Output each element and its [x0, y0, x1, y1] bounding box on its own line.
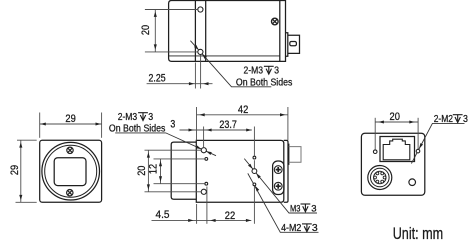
side view hole upper-left	[201, 148, 206, 153]
top view screw hole lower	[198, 49, 203, 54]
svg-text:Unit: mm: Unit: mm	[393, 225, 444, 243]
side view right hole middle	[252, 169, 257, 174]
svg-text:4.5: 4.5	[156, 209, 170, 221]
svg-text:29: 29	[65, 113, 75, 125]
svg-text:2-M2: 2-M2	[434, 114, 454, 125]
dimension 4.5 and 22 (side view)	[152, 186, 255, 224]
svg-text:3: 3	[312, 223, 318, 234]
dimension 20 (side view)	[145, 150, 202, 192]
side view body	[196, 140, 283, 202]
side view right small hole lower	[253, 183, 256, 186]
side view small hole lower	[205, 182, 208, 185]
front view square body	[40, 140, 102, 202]
side view screw boss	[273, 161, 284, 195]
svg-text:29: 29	[9, 165, 21, 175]
front view top screw	[67, 147, 73, 153]
back view LED hole	[409, 179, 416, 186]
front view lens mount inner circle	[45, 145, 97, 197]
dimension 12 (side view)	[154, 159, 205, 184]
side view connector bar	[287, 144, 290, 164]
side view right small hole upper	[253, 156, 256, 159]
front view sensor window	[54, 158, 86, 186]
leader to back view right screw hole	[418, 143, 423, 149]
svg-text:42: 42	[238, 104, 248, 116]
leader to side view middle hole	[248, 164, 254, 170]
dimension 20 (top view)	[145, 10, 198, 52]
svg-text:20: 20	[140, 25, 152, 35]
top view second panel line	[205, 1, 207, 62]
dimension 42 (side view)	[197, 107, 288, 140]
svg-text:20: 20	[136, 166, 148, 176]
side view rear strip	[284, 140, 288, 202]
svg-text:22: 22	[225, 210, 235, 222]
svg-text:23.7: 23.7	[219, 119, 237, 131]
leader to side view lower small hole	[254, 185, 259, 191]
front view lens mount outer circle	[42, 142, 100, 200]
top view screw hole upper	[198, 7, 203, 12]
svg-text:3: 3	[274, 66, 279, 77]
leader line to M2 hole	[248, 173, 319, 232]
dimension 2.25 (top view)	[147, 55, 213, 89]
back view screw hole left	[373, 150, 377, 154]
top view body	[169, 1, 280, 62]
dimension 20 (back view)	[375, 118, 418, 150]
back view RJ45 outer rect	[380, 137, 415, 162]
top view connector body	[288, 35, 300, 53]
top view rear cap	[280, 1, 286, 62]
dimension 29 width (front view)	[40, 113, 102, 138]
svg-text:On Both Sides: On Both Sides	[109, 123, 165, 134]
dimension 29 height (front view)	[16, 140, 37, 202]
svg-text:2-M3: 2-M3	[244, 66, 264, 77]
svg-text:2-M3: 2-M3	[118, 112, 138, 123]
svg-text:2.25: 2.25	[149, 73, 166, 85]
top view inner bottom line	[169, 55, 280, 57]
back view leader line	[411, 123, 464, 163]
side view hole lower-left	[201, 189, 206, 194]
top view connector bar	[286, 33, 288, 56]
side view lens barrel	[171, 142, 196, 199]
side view boss screw upper	[274, 166, 282, 174]
svg-text:12: 12	[147, 164, 159, 174]
svg-text:3: 3	[311, 203, 316, 213]
svg-text:On Both Sides: On Both Sides	[236, 77, 293, 88]
leader line to M3 hole	[244, 159, 317, 213]
side view connector body	[289, 147, 301, 163]
leader line to side hole	[115, 133, 216, 156]
back view RJ45 jack profile	[383, 139, 410, 160]
back view square body	[361, 133, 424, 195]
back view screw hole right	[416, 149, 420, 153]
back view power connector	[368, 166, 392, 190]
top view connector hole	[290, 42, 297, 46]
side view small hole upper	[205, 158, 208, 161]
svg-text:4-M2: 4-M2	[281, 223, 302, 234]
svg-text:M3: M3	[290, 203, 300, 213]
svg-text:3: 3	[463, 114, 468, 125]
top view front panel line	[194, 1, 196, 62]
svg-text:20: 20	[390, 111, 400, 123]
leader to lower screw hole (top view)	[194, 45, 200, 51]
dimension 3 and 23.7 (side view)	[180, 127, 255, 169]
svg-text:3: 3	[148, 112, 153, 123]
front view bottom screw	[67, 190, 73, 196]
svg-text:3: 3	[170, 119, 175, 131]
leader to side view upper-left hole	[196, 145, 202, 150]
side view boss screw lower	[274, 182, 282, 190]
top view leader line	[190, 41, 271, 87]
top view phillips screw	[272, 18, 279, 25]
